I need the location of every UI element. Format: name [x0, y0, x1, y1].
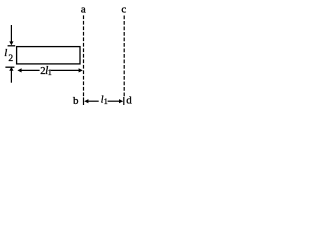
svg-text:l2: l2 — [4, 47, 13, 64]
svg-text:a: a — [81, 4, 86, 16]
l1 dimension right arrow (pointing right) — [108, 99, 124, 103]
l1 dimension right bar — [123, 97, 125, 105]
dashed line c-d — [123, 16, 125, 98]
svg-text:c: c — [121, 4, 126, 16]
l2 bottom dimension arrow (pointing up) — [9, 67, 13, 83]
l2 bottom extension tick — [5, 66, 14, 68]
l1 dimension left arrow (pointing left) — [84, 99, 99, 103]
svg-text:b: b — [73, 95, 79, 107]
dashed line a-b — [83, 15, 85, 97]
svg-text:d: d — [126, 95, 132, 107]
svg-text:2l1: 2l1 — [40, 65, 52, 77]
2l1 dimension right arrow (pointing right) — [51, 68, 83, 72]
l2 top dimension arrow (pointing down) — [9, 25, 13, 45]
svg-text:l1: l1 — [101, 94, 108, 106]
2l1 dimension left arrow (pointing left) — [17, 68, 39, 72]
l1 dimension left bar — [83, 97, 85, 105]
plate rectangle — [17, 47, 80, 64]
l2 top extension tick — [8, 45, 16, 47]
